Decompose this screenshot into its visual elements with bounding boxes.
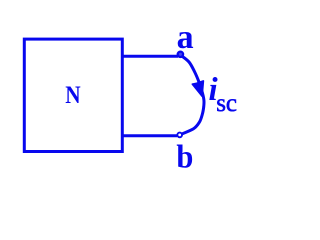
wire box to b <box>122 134 177 137</box>
svg-text:sc: sc <box>216 90 237 117</box>
current arrowhead i_sc <box>192 81 203 96</box>
terminal a dot <box>178 52 183 57</box>
svg-text:N: N <box>65 82 80 109</box>
svg-text:b: b <box>176 140 193 176</box>
wire box to a <box>122 55 178 58</box>
short-circuit arc a to b <box>180 55 204 134</box>
network box N <box>24 39 122 151</box>
svg-text:a: a <box>177 19 194 56</box>
terminal b circle <box>177 133 182 138</box>
